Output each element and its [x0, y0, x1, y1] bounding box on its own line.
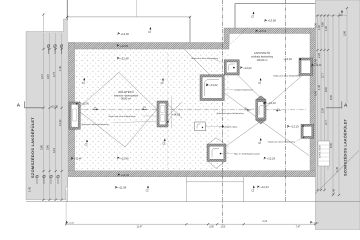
parapet band top main	[68, 43, 229, 50]
ground line	[26, 200, 360, 202]
svg-text:1,00: 1,00	[220, 225, 225, 228]
svg-text:3,87: 3,87	[46, 73, 50, 79]
svg-text:0,90: 0,90	[314, 90, 318, 96]
svg-text:SZOMSZÉDOS LAKÓÉPÜLET: SZOMSZÉDOS LAKÓÉPÜLET	[30, 117, 35, 178]
svg-text:7,47: 7,47	[296, 225, 301, 228]
roof valleys right system	[225, 68, 310, 155]
svg-text:1,45: 1,45	[332, 188, 336, 194]
svg-text:Gépészeti akna felépítmény: Gépészeti akna felépítmény	[191, 57, 219, 60]
parapet band bottom	[68, 171, 315, 177]
roof bow-tie right of shaft	[166, 102, 182, 119]
svg-text:-0,15: -0,15	[69, 223, 75, 225]
svg-text:8,50: 8,50	[324, 86, 328, 92]
svg-text:Lefolyó felépítmény: Lefolyó felépítmény	[234, 88, 254, 91]
parapet band step vertical	[224, 28, 229, 43]
svg-text:11,47: 11,47	[136, 225, 143, 228]
skylight S6	[299, 58, 313, 76]
tick marks left chains	[42, 48, 62, 201]
svg-text:98,00 m²: 98,00 m²	[121, 98, 131, 101]
svg-text:+13,70: +13,70	[51, 105, 59, 108]
section/slope markers with C	[148, 27, 151, 34]
skylight S9	[207, 138, 226, 169]
skylight S2	[157, 101, 169, 127]
svg-text:2,20: 2,20	[317, 52, 321, 58]
neighbour building right (grey mass)	[315, 0, 360, 230]
outline: lower storey left box	[66, 177, 68, 202]
roof field stipple (green roof)	[75, 50, 229, 171]
svg-text:+13,19: +13,19	[290, 125, 299, 129]
svg-text:1,00: 1,00	[317, 24, 321, 30]
parapet band left	[68, 43, 74, 171]
svg-text:1,45: 1,45	[28, 186, 32, 192]
svg-text:+12,44: +12,44	[74, 158, 82, 161]
svg-text:2,12: 2,12	[263, 221, 268, 223]
svg-text:0,60: 0,60	[321, 21, 325, 27]
svg-text:-0,02: -0,02	[313, 223, 319, 225]
svg-text:0,30: 0,30	[314, 22, 318, 28]
svg-text:Gépészeti akna felépítmény: Gépészeti akna felépítmény	[108, 115, 136, 118]
outline: lower storey middle verticals	[186, 177, 243, 202]
svg-text:3,60: 3,60	[46, 144, 50, 150]
svg-text:+13,10: +13,10	[267, 101, 276, 105]
svg-text:2%: 2%	[277, 109, 280, 111]
svg-text:2%: 2%	[94, 107, 97, 109]
roof hatch S8	[195, 122, 206, 131]
parapet band top right	[229, 28, 310, 34]
svg-text:+13,19: +13,19	[284, 57, 293, 61]
wire: leader to shaft drain	[169, 116, 172, 122]
outline: top-right annex	[235, 4, 315, 28]
axis line horizontal	[75, 109, 307, 111]
svg-text:+14,15: +14,15	[172, 112, 181, 116]
svg-text:2%: 2%	[245, 108, 248, 110]
vent pipes top cluster	[47, 44, 63, 54]
wire: light trace at x137	[136, 0, 138, 17]
vent pipes bottom cluster	[36, 175, 60, 184]
section line C left	[221, 0, 223, 226]
svg-text:2%: 2%	[143, 107, 146, 109]
dimension numbers right strip	[314, 21, 347, 194]
svg-text:+12,40: +12,40	[120, 156, 129, 160]
skylight S4	[224, 60, 239, 75]
svg-text:3,50: 3,50	[209, 225, 214, 228]
outline: terrace east wall	[189, 17, 191, 43]
svg-text:+12,44: +12,44	[121, 173, 130, 177]
wire: extension line left	[42, 14, 44, 32]
svg-text:+13,42: +13,42	[314, 65, 322, 67]
room label green roof	[114, 89, 138, 101]
elevation marks	[51, 19, 322, 225]
section line C right	[285, 0, 287, 202]
valley at annex corner	[185, 49, 217, 81]
wire: shaft axis line	[171, 96, 173, 128]
svg-text:Nyit. és felülvilágító kupola: Nyit. és felülvilágító kupola	[234, 153, 261, 156]
svg-text:4,07: 4,07	[40, 73, 44, 79]
svg-text:14 R 17,5/28: 14 R 17,5/28	[320, 145, 322, 158]
svg-text:8,50: 8,50	[329, 94, 333, 100]
svg-text:+12,84: +12,84	[120, 44, 129, 48]
svg-text:1,45: 1,45	[317, 84, 321, 90]
svg-text:Gépészeti akna felépítmény: Gépészeti akna felépítmény	[268, 140, 296, 143]
boundary diagonal right	[315, 151, 359, 195]
svg-text:4,75: 4,75	[52, 71, 56, 77]
svg-text:1,45: 1,45	[314, 58, 318, 64]
parapet band right	[310, 28, 315, 177]
room label flat roof	[251, 50, 274, 62]
dimension chains in left grey strip	[44, 33, 62, 200]
svg-text:+13,58: +13,58	[268, 19, 277, 23]
bottom dimension line	[66, 223, 315, 225]
svg-text:4,15: 4,15	[52, 147, 56, 153]
svg-text:+13,76: +13,76	[81, 103, 89, 106]
svg-text:3,77: 3,77	[321, 72, 325, 78]
roof slope diamond left	[77, 72, 157, 147]
svg-text:106,92 m²: 106,92 m²	[257, 59, 268, 62]
svg-text:8,50: 8,50	[329, 142, 333, 148]
svg-text:+12,29: +12,29	[267, 157, 276, 161]
svg-text:+12,44: +12,44	[260, 185, 269, 189]
svg-text:2,86: 2,86	[343, 30, 347, 36]
svg-text:+13,02: +13,02	[209, 83, 218, 87]
svg-text:+13,36: +13,36	[121, 32, 130, 36]
svg-text:3,77: 3,77	[324, 119, 328, 125]
skylight S5 (central)	[256, 96, 266, 124]
svg-text:Gépészeti akna felépítmény: Gépészeti akna felépítmény	[82, 123, 110, 126]
svg-text:3,80: 3,80	[40, 144, 44, 150]
dashed valley at step	[225, 27, 250, 51]
dimension chains right strip	[315, 8, 347, 195]
skylight S3	[200, 75, 224, 101]
svg-text:1,40: 1,40	[58, 65, 62, 71]
svg-text:ZÖLDTETŐ: ZÖLDTETŐ	[118, 89, 134, 94]
svg-text:SZOMSZÉDOS LAKÓÉPÜLET: SZOMSZÉDOS LAKÓÉPÜLET	[343, 118, 348, 176]
neighbour building left (grey mass)	[26, 19, 67, 200]
svg-text:2,20: 2,20	[321, 107, 325, 113]
svg-text:1,00: 1,00	[324, 25, 328, 31]
axis line vertical mid	[167, 52, 169, 170]
svg-text:Gépészeti akna felépítmény: Gépészeti akna felépítmény	[217, 112, 245, 115]
stair box in right strip	[318, 141, 330, 166]
drain slope arrows 2%	[93, 109, 281, 112]
outline: west wall upper	[66, 0, 68, 20]
ticks right strip	[316, 7, 348, 196]
outline: upper edge left	[67, 16, 190, 18]
svg-text:+13,04: +13,04	[259, 30, 267, 33]
dimension numbers left strip	[28, 65, 63, 192]
svg-text:Gépészeti akna felépítmény: Gépészeti akna felépítmény	[273, 74, 301, 77]
skylight S1	[69, 102, 80, 129]
svg-text:+12,40: +12,40	[120, 57, 129, 61]
svg-text:+13,02: +13,02	[243, 66, 252, 70]
svg-text:12,42: 12,42	[58, 119, 62, 126]
top dimension ticks	[66, 16, 191, 18]
svg-text:1,45: 1,45	[335, 166, 339, 172]
svg-text:+11,96: +11,96	[118, 186, 127, 190]
skylight S7	[301, 124, 314, 138]
